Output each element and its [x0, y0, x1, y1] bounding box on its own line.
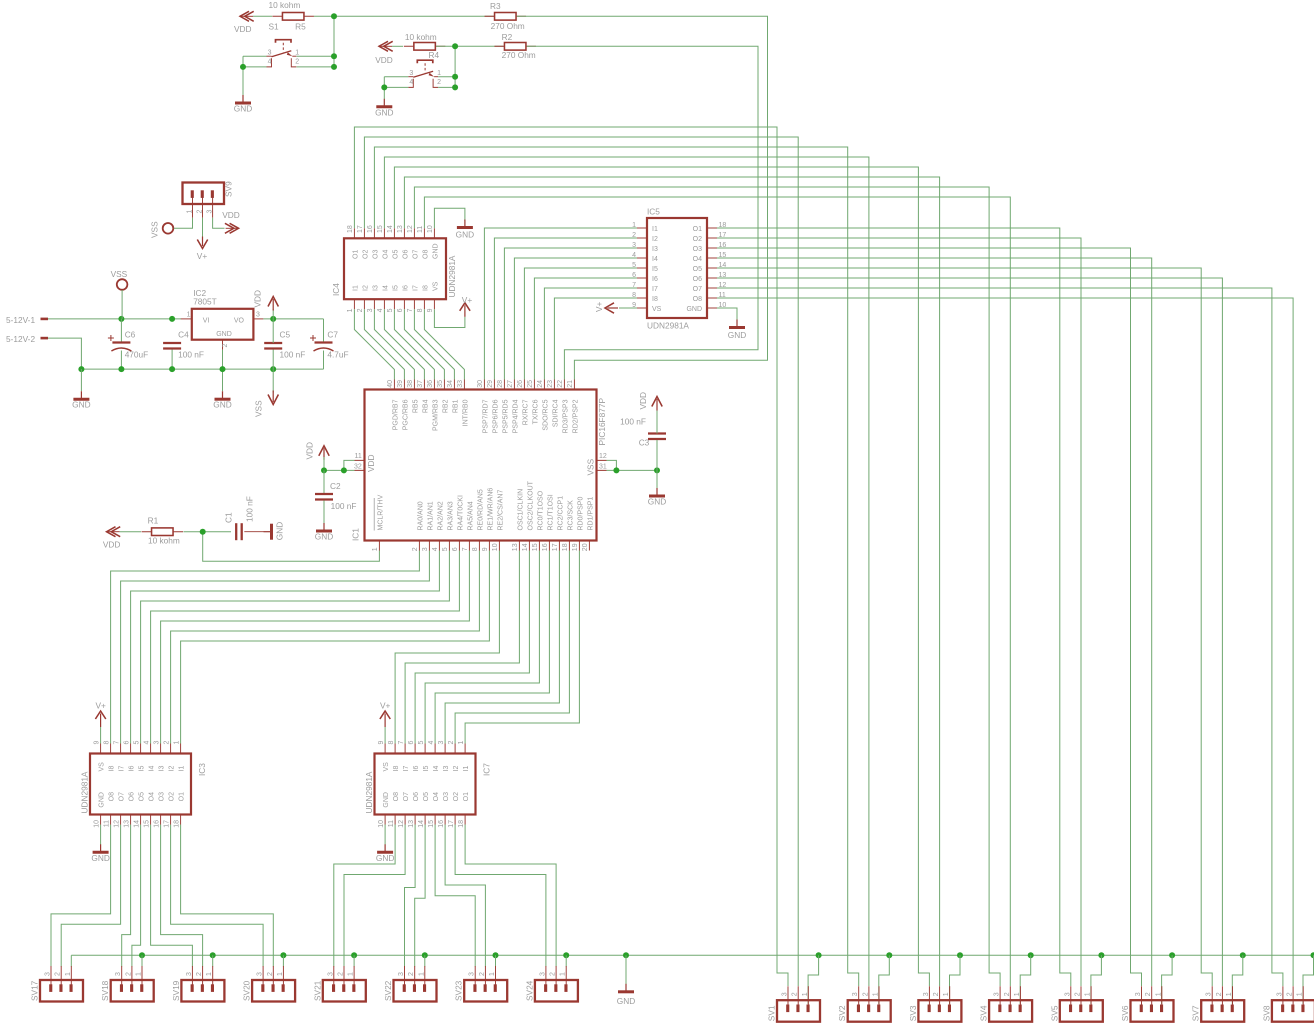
- svg-text:C6: C6: [125, 329, 136, 339]
- junction and drop SV23 pin1: [493, 952, 499, 958]
- svg-text:O5: O5: [139, 792, 146, 801]
- svg-text:VO: VO: [234, 318, 245, 325]
- svg-text:3: 3: [257, 972, 264, 976]
- resistor R4: [404, 45, 446, 47]
- svg-text:6: 6: [452, 547, 459, 551]
- svg-text:3: 3: [1135, 992, 1142, 996]
- svg-text:SV2: SV2: [837, 1005, 847, 1021]
- svg-text:I4: I4: [433, 766, 440, 772]
- svg-text:O4: O4: [433, 792, 440, 801]
- ground GND at S2: [383, 99, 385, 106]
- svg-text:RD2/PSP2: RD2/PSP2: [573, 399, 580, 433]
- svg-text:I8: I8: [652, 296, 658, 303]
- svg-text:I7: I7: [412, 285, 419, 291]
- wires PIC RA0-RE1 staircase to IC3 inputs: [111, 551, 420, 744]
- IC driver IC3 UDN2981A: [100, 744, 102, 754]
- ground GND at S1: [242, 95, 244, 102]
- svg-text:16: 16: [542, 543, 549, 551]
- wire IC7 VS pin9 to V+: [384, 727, 386, 744]
- ground GND below IC2: [222, 391, 224, 398]
- svg-text:2: 2: [222, 344, 229, 348]
- svg-text:32: 32: [354, 464, 362, 471]
- svg-text:PGD/RB7: PGD/RB7: [393, 399, 400, 430]
- svg-text:2: 2: [437, 79, 441, 86]
- power symbol VDD (right arrow) at SV9: [230, 223, 239, 233]
- svg-text:100 nF: 100 nF: [245, 496, 255, 522]
- svg-text:RE2/CS/AN7: RE2/CS/AN7: [498, 490, 505, 531]
- svg-text:SV8: SV8: [1261, 1005, 1271, 1021]
- svg-text:RB4: RB4: [423, 399, 430, 413]
- svg-text:1: 1: [1085, 992, 1092, 996]
- svg-text:O2: O2: [169, 792, 176, 801]
- junction S1 left column: [240, 64, 246, 70]
- svg-text:3: 3: [852, 992, 859, 996]
- svg-text:10: 10: [378, 820, 385, 828]
- junction and drop SV21 pin1: [351, 952, 357, 958]
- svg-text:RA0/AN0: RA0/AN0: [418, 501, 425, 530]
- svg-text:4: 4: [409, 79, 413, 86]
- svg-text:10 kohm: 10 kohm: [269, 0, 301, 10]
- svg-text:7: 7: [398, 741, 405, 745]
- svg-text:GND: GND: [315, 532, 333, 542]
- svg-text:1: 1: [458, 741, 465, 745]
- svg-text:I1: I1: [179, 766, 186, 772]
- power symbol VDD (arrow) for R4: [379, 41, 388, 51]
- svg-text:5: 5: [387, 308, 394, 312]
- svg-text:3: 3: [438, 741, 445, 745]
- ground GND below C3: [656, 488, 658, 495]
- svg-text:4: 4: [428, 741, 435, 745]
- svg-text:RD0/PSP0: RD0/PSP0: [578, 497, 585, 531]
- svg-text:2: 2: [55, 972, 62, 976]
- svg-text:VSS: VSS: [150, 221, 160, 238]
- svg-text:100 nF: 100 nF: [178, 349, 204, 359]
- svg-text:I8: I8: [422, 285, 429, 291]
- svg-text:VDD: VDD: [366, 454, 376, 472]
- wire S1 pin1 to junction column: [297, 55, 335, 57]
- svg-text:11: 11: [355, 453, 362, 460]
- svg-text:SV9: SV9: [224, 181, 234, 197]
- power symbol VDD above C3: [652, 397, 662, 407]
- junction and jog SV8 pin1: [1311, 952, 1314, 958]
- wire C6 bottom to GND rail: [120, 351, 122, 370]
- svg-text:16: 16: [153, 820, 160, 828]
- svg-text:VS: VS: [432, 281, 439, 291]
- wire net VDD stub at R5: [253, 15, 272, 17]
- svg-text:GND: GND: [648, 497, 666, 507]
- power symbol V+ at IC5 (left arrow): [605, 303, 614, 313]
- svg-text:O3: O3: [159, 792, 166, 801]
- svg-text:17: 17: [448, 820, 455, 828]
- resistor R2: [494, 45, 536, 47]
- svg-text:23: 23: [547, 380, 554, 388]
- svg-text:4: 4: [268, 59, 272, 66]
- wires IC7 outputs fan to SV21-SV24: [334, 825, 395, 967]
- svg-text:O7: O7: [693, 286, 702, 293]
- svg-text:2: 2: [412, 547, 419, 551]
- wires IC5 inputs I1-I8 from PIC RD7-RC4 staircase: [484, 228, 637, 380]
- svg-text:O8: O8: [109, 792, 116, 801]
- IC driver IC4 UDN2981A: [353, 228, 355, 238]
- svg-text:4: 4: [377, 308, 384, 312]
- wire net R5/R3/S1 junction column: [314, 15, 494, 17]
- svg-text:I3: I3: [652, 246, 658, 253]
- junction and jog SV3 pin1: [957, 952, 963, 958]
- svg-text:4.7uF: 4.7uF: [327, 349, 348, 359]
- svg-text:18: 18: [347, 225, 354, 233]
- svg-text:1: 1: [65, 972, 72, 976]
- junction and jog SV1 pin1: [816, 952, 822, 958]
- svg-text:SV6: SV6: [1120, 1005, 1130, 1021]
- svg-text:2: 2: [550, 972, 557, 976]
- svg-text:3: 3: [186, 972, 193, 976]
- wire S1 left column to GND: [242, 56, 244, 95]
- svg-text:7: 7: [113, 741, 120, 745]
- svg-text:3: 3: [782, 992, 789, 996]
- wire junction to GND below C3: [656, 470, 658, 488]
- junction and jog SV5 pin1: [1098, 952, 1104, 958]
- svg-text:C4: C4: [178, 329, 189, 339]
- svg-text:3: 3: [45, 972, 52, 976]
- svg-text:VDD: VDD: [638, 392, 648, 410]
- svg-text:GND: GND: [456, 230, 474, 240]
- junction and drop SV19 pin1: [210, 952, 216, 958]
- svg-text:100 nF: 100 nF: [280, 349, 306, 359]
- junction and jog SV7 pin1: [1240, 952, 1246, 958]
- wire S1 pin3 to GND column: [243, 55, 267, 57]
- svg-text:35: 35: [437, 380, 444, 388]
- svg-text:2: 2: [125, 972, 132, 976]
- svg-text:2: 2: [1287, 992, 1294, 996]
- ground GND at IC4: [464, 220, 466, 227]
- svg-text:19: 19: [572, 543, 579, 551]
- wire S2 pin1 row: [438, 76, 455, 78]
- connector SV21: [333, 966, 335, 986]
- svg-text:UDN2981A: UDN2981A: [364, 771, 374, 813]
- svg-text:RC2/CCP1: RC2/CCP1: [558, 496, 565, 531]
- junction and jog SV2 pin1: [886, 952, 892, 958]
- ground GND left: [80, 391, 82, 398]
- junction S1 pin2: [331, 64, 337, 70]
- svg-text:GND: GND: [376, 853, 394, 863]
- svg-text:RA1/AN1: RA1/AN1: [428, 501, 435, 530]
- svg-text:24: 24: [537, 380, 544, 388]
- svg-text:VS: VS: [99, 762, 106, 772]
- connector SV22: [404, 966, 406, 986]
- junction GND rail at C6: [118, 366, 124, 372]
- svg-text:VI: VI: [203, 318, 210, 325]
- svg-text:R5: R5: [295, 21, 306, 31]
- svg-text:SV19: SV19: [171, 980, 181, 1001]
- svg-text:5: 5: [442, 547, 449, 551]
- capacitor C5: [264, 342, 282, 344]
- svg-text:1: 1: [347, 308, 354, 312]
- svg-text:17: 17: [357, 225, 364, 233]
- svg-text:33: 33: [457, 380, 464, 388]
- svg-text:1: 1: [277, 972, 284, 976]
- svg-text:17: 17: [552, 543, 559, 551]
- svg-text:2: 2: [862, 992, 869, 996]
- svg-text:I2: I2: [362, 285, 369, 291]
- junction GND rail at C4: [169, 366, 175, 372]
- connector SV7: [1211, 986, 1213, 1006]
- svg-text:3: 3: [994, 992, 1001, 996]
- ground GND below C2: [323, 523, 325, 530]
- svg-text:2: 2: [357, 308, 364, 312]
- svg-text:15: 15: [377, 225, 384, 233]
- svg-text:OSC2/CLKOUT: OSC2/CLKOUT: [528, 480, 535, 530]
- capacitor C2 with VDD and GND: [319, 446, 329, 456]
- wire net MCLR: R1 to C1 and PIC pin 1: [184, 531, 232, 533]
- svg-text:2: 2: [197, 210, 204, 214]
- svg-text:1: 1: [1014, 992, 1021, 996]
- switch S1: [276, 40, 292, 43]
- svg-text:I6: I6: [129, 766, 136, 772]
- junction C6 top: [118, 316, 124, 322]
- svg-text:GND: GND: [728, 330, 746, 340]
- wire C5 top stub: [272, 319, 274, 343]
- svg-text:270 Ohm: 270 Ohm: [502, 50, 536, 60]
- svg-text:O3: O3: [443, 792, 450, 801]
- svg-text:10: 10: [427, 225, 434, 233]
- svg-text:SDO/RC5: SDO/RC5: [543, 399, 550, 430]
- voltage regulator IC2 7805T: [192, 309, 254, 340]
- svg-text:I4: I4: [652, 256, 658, 263]
- power symbol VDD above C5: [268, 297, 278, 307]
- svg-text:RA3/AN3: RA3/AN3: [448, 501, 455, 530]
- svg-text:2: 2: [448, 741, 455, 745]
- svg-text:1: 1: [802, 992, 809, 996]
- connector SV18: [121, 966, 123, 986]
- svg-text:GND: GND: [375, 107, 393, 117]
- svg-text:RX/RC7: RX/RC7: [523, 399, 530, 425]
- svg-text:C2: C2: [330, 481, 341, 491]
- power symbol VDD at R1: [107, 527, 116, 537]
- svg-text:O2: O2: [453, 792, 460, 801]
- wires IC3 outputs fan to SV17-SV20: [51, 825, 111, 967]
- svg-text:3: 3: [256, 312, 260, 319]
- svg-text:31: 31: [599, 464, 607, 471]
- svg-text:1: 1: [372, 547, 379, 551]
- wire SV17 pin1 drop: [70, 955, 72, 966]
- svg-text:3: 3: [367, 308, 374, 312]
- svg-text:18: 18: [458, 820, 465, 828]
- svg-text:1: 1: [873, 992, 880, 996]
- svg-text:2: 2: [267, 972, 274, 976]
- wire C1 to rotated GND: [244, 531, 263, 533]
- svg-text:13: 13: [512, 543, 519, 551]
- svg-text:O2: O2: [362, 250, 369, 259]
- wire net VSS PIC pins 12/31 to C3: [607, 460, 617, 470]
- svg-text:10 kohm: 10 kohm: [148, 535, 180, 545]
- svg-text:1: 1: [206, 972, 213, 976]
- svg-text:2: 2: [1145, 992, 1152, 996]
- wire net 5-12V-1 to IC2 VI: [48, 318, 181, 320]
- svg-text:PSP7/RD7: PSP7/RD7: [483, 399, 490, 433]
- svg-text:GND: GND: [72, 400, 90, 410]
- svg-text:1: 1: [489, 972, 496, 976]
- junction and drop SV22 pin1: [422, 952, 428, 958]
- svg-text:12: 12: [398, 820, 405, 828]
- connector SV2: [858, 986, 860, 1006]
- svg-text:I3: I3: [372, 285, 379, 291]
- svg-text:O8: O8: [693, 296, 702, 303]
- svg-text:VSS: VSS: [586, 458, 596, 475]
- ground GND at IC5: [736, 320, 738, 327]
- junction R5-R3: [331, 13, 337, 19]
- svg-text:O6: O6: [129, 792, 136, 801]
- svg-text:I1: I1: [352, 285, 359, 291]
- svg-text:I1: I1: [652, 226, 658, 233]
- svg-text:28: 28: [497, 380, 504, 388]
- wires IC4 outputs O1-O8 staircase to SV1-SV4: [354, 127, 788, 986]
- svg-text:I1: I1: [463, 766, 470, 772]
- junction common line GND branch: [623, 952, 629, 958]
- capacitor C1 (rotated): [235, 523, 237, 540]
- svg-text:O1: O1: [693, 226, 702, 233]
- svg-text:14: 14: [133, 820, 140, 828]
- wire net 5-12V-2 to GND rail: [48, 338, 81, 369]
- svg-text:O5: O5: [693, 266, 702, 273]
- svg-text:SV1: SV1: [767, 1005, 777, 1021]
- wire IC2 GND pin to rail and GND symbol: [222, 350, 224, 369]
- svg-text:GND: GND: [617, 996, 635, 1006]
- svg-text:PGM/RB3: PGM/RB3: [433, 399, 440, 431]
- svg-text:RA4/T0CKI: RA4/T0CKI: [458, 495, 465, 530]
- capacitor C6: [112, 341, 130, 343]
- svg-text:O2: O2: [693, 236, 702, 243]
- connector SV8: [1282, 986, 1284, 1006]
- svg-text:O1: O1: [463, 792, 470, 801]
- svg-text:3: 3: [327, 972, 334, 976]
- svg-text:O6: O6: [413, 792, 420, 801]
- svg-text:14: 14: [522, 543, 529, 551]
- wire net VO (IC2 out): [263, 318, 323, 320]
- svg-text:2: 2: [792, 992, 799, 996]
- svg-text:100 nF: 100 nF: [620, 417, 646, 427]
- svg-text:22: 22: [557, 380, 564, 388]
- svg-text:16: 16: [367, 225, 374, 233]
- svg-text:2: 2: [338, 972, 345, 976]
- svg-text:SV7: SV7: [1191, 1005, 1201, 1021]
- svg-text:8: 8: [103, 741, 110, 745]
- junction R4-R2: [452, 43, 458, 49]
- svg-text:18: 18: [562, 543, 569, 551]
- ground GND at IC3: [100, 844, 102, 851]
- svg-text:RC0/T1OSO: RC0/T1OSO: [538, 490, 545, 530]
- svg-text:5: 5: [418, 741, 425, 745]
- svg-text:SV24: SV24: [524, 980, 534, 1001]
- junction GND rail at C5: [270, 366, 276, 372]
- junction S2 pin1: [452, 74, 458, 80]
- svg-text:5-12V-2: 5-12V-2: [6, 334, 35, 344]
- wire SV9 pin2 to V+: [202, 218, 204, 239]
- svg-text:R3: R3: [490, 1, 501, 11]
- svg-text:SV22: SV22: [383, 980, 393, 1001]
- svg-text:O8: O8: [422, 250, 429, 259]
- svg-text:O5: O5: [392, 250, 399, 259]
- svg-text:26: 26: [517, 380, 524, 388]
- capacitor C4: [163, 342, 181, 344]
- svg-text:TX/RC6: TX/RC6: [533, 399, 540, 424]
- resistor R3: [485, 15, 527, 17]
- svg-text:VS: VS: [383, 762, 390, 772]
- svg-text:PSP4/RD4: PSP4/RD4: [513, 399, 520, 433]
- wire C4 bottom to GND rail: [171, 350, 173, 370]
- svg-text:10: 10: [492, 543, 499, 551]
- svg-text:3: 3: [539, 972, 546, 976]
- wire VDD arrow above C5: [272, 309, 274, 319]
- wire C2 bottom to GND: [323, 501, 325, 524]
- power symbol VSS below C5: [272, 369, 274, 392]
- svg-text:13: 13: [408, 820, 415, 828]
- svg-text:V+: V+: [594, 301, 604, 312]
- svg-text:RC1/T1OSI: RC1/T1OSI: [548, 494, 555, 530]
- wire IC7 GND pin10 to GND: [384, 825, 386, 845]
- svg-text:3: 3: [398, 972, 405, 976]
- svg-text:2: 2: [1216, 992, 1223, 996]
- IC driver IC7 UDN2981A: [384, 744, 386, 754]
- svg-text:O4: O4: [693, 256, 702, 263]
- svg-text:O5: O5: [423, 792, 430, 801]
- svg-text:4: 4: [143, 741, 150, 745]
- svg-text:RE0/RD/AN5: RE0/RD/AN5: [478, 489, 485, 530]
- svg-text:RB2: RB2: [443, 399, 450, 413]
- wire IC5 VS pin9 to V+: [619, 307, 637, 309]
- svg-text:I6: I6: [413, 766, 420, 772]
- svg-text:I8: I8: [393, 766, 400, 772]
- capacitor C2: [315, 493, 333, 495]
- svg-text:39: 39: [397, 380, 404, 388]
- connector SV4: [999, 986, 1001, 1006]
- svg-text:O8: O8: [393, 792, 400, 801]
- svg-text:PGC/RB6: PGC/RB6: [403, 399, 410, 430]
- svg-text:36: 36: [427, 380, 434, 388]
- wire S1 pin4 row: [243, 66, 267, 68]
- wire VSS circle to 5-12V-1 rail: [121, 290, 123, 319]
- svg-text:V+: V+: [197, 251, 208, 261]
- svg-text:6: 6: [408, 741, 415, 745]
- svg-text:SV4: SV4: [979, 1005, 989, 1021]
- svg-text:I8: I8: [109, 766, 116, 772]
- svg-text:GND: GND: [686, 306, 702, 313]
- junction GND rail at 5-12V-2: [78, 366, 84, 372]
- svg-text:2: 2: [1075, 992, 1082, 996]
- wire IC4 GND pin10 to GND symbol: [434, 208, 465, 228]
- wire C5 bottom to rail: [272, 350, 274, 370]
- svg-text:I5: I5: [423, 766, 430, 772]
- svg-text:1: 1: [943, 992, 950, 996]
- svg-text:100 nF: 100 nF: [331, 501, 357, 511]
- junction VSS at pin31: [613, 467, 619, 473]
- ground GND at IC7: [384, 844, 386, 851]
- power symbol V+ at IC7: [380, 711, 390, 719]
- svg-text:O1: O1: [352, 250, 359, 259]
- power symbol V+ at IC4: [460, 303, 470, 311]
- svg-text:O1: O1: [179, 792, 186, 801]
- svg-text:2: 2: [933, 992, 940, 996]
- svg-text:VDD: VDD: [375, 55, 393, 65]
- svg-text:1: 1: [187, 312, 191, 319]
- wire net R3 to PIC pin 21: [517, 16, 768, 379]
- connector SV6: [1141, 986, 1143, 1006]
- svg-text:12: 12: [599, 453, 607, 460]
- connector SV3: [928, 986, 930, 1006]
- wire S2 pin4 row: [384, 86, 408, 88]
- svg-text:17: 17: [163, 820, 170, 828]
- connector SV20: [262, 966, 264, 986]
- svg-text:1: 1: [560, 972, 567, 976]
